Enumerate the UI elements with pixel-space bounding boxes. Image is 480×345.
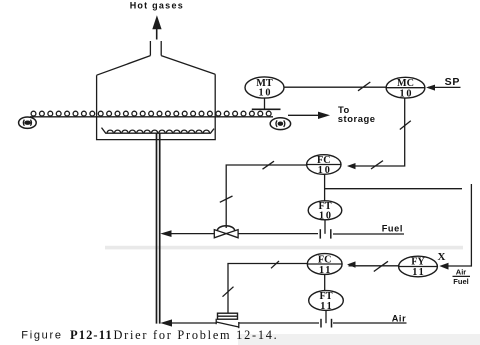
wire SP to MC-10 with arrowhead: [426, 85, 461, 91]
svg-text:Fuel: Fuel: [453, 277, 468, 286]
drier body: [97, 74, 216, 139]
signal slash on horizontal segment: [263, 161, 275, 169]
svg-text:11: 11: [319, 265, 332, 276]
signal slash: [374, 261, 388, 271]
to storage arrow: [288, 112, 330, 119]
svg-text:FC: FC: [318, 254, 332, 265]
wire MT-10 to MC-10: [284, 86, 386, 88]
svg-text:11: 11: [412, 267, 425, 278]
conveyor chain circles: [31, 111, 271, 116]
moisture transmitter MT-10: [245, 77, 284, 109]
signal slash on vertical segment: [400, 121, 411, 130]
fuel line: [163, 233, 404, 235]
svg-text:P12-11: P12-11: [70, 328, 113, 342]
faint scan smudge bottom right: [238, 334, 480, 345]
flow controller FC-11: [307, 254, 342, 276]
ratio relay FY-11: [399, 256, 438, 278]
air arrow into burner pipe: [160, 319, 172, 326]
fuel arrow into burner pipe: [160, 230, 171, 237]
wire FC-11 to FT-11: [324, 274, 326, 290]
drier roof: [97, 56, 216, 76]
left pulley: [19, 117, 37, 128]
svg-text:Hot gases: Hot gases: [130, 1, 184, 11]
wire FC-11 to damper: [223, 261, 308, 313]
wire FC-10 to FT-10: [324, 174, 326, 201]
svg-text:SP: SP: [445, 76, 461, 88]
right pulley: [270, 118, 290, 130]
orifice flow element FT-10: [320, 220, 331, 239]
burner pipe: [157, 133, 160, 323]
faint scan smudge band: [105, 246, 463, 250]
conveyor belt line: [30, 116, 273, 118]
moisture controller MC-10: [386, 77, 425, 99]
svg-text:Drier for Problem 12-14.: Drier for Problem 12-14.: [114, 328, 279, 342]
svg-text:Air: Air: [392, 314, 407, 324]
arrowhead into FY-11: [439, 263, 448, 270]
signal slash on vertical segment: [220, 196, 233, 202]
drier chimney: [150, 41, 161, 56]
svg-text:10: 10: [400, 88, 414, 99]
svg-text:MC: MC: [397, 78, 414, 89]
wire FT-10 branch to FY-11: [325, 184, 472, 266]
svg-text:Figure: Figure: [21, 330, 62, 342]
svg-text:Fuel: Fuel: [382, 224, 403, 234]
svg-text:FY: FY: [411, 257, 425, 268]
wire MC-10 to FC-10: [347, 98, 411, 169]
svg-text:10: 10: [259, 88, 273, 99]
flow transmitter FT-10: [308, 201, 342, 222]
svg-text:Air: Air: [456, 268, 467, 277]
svg-text:11: 11: [320, 301, 333, 312]
air damper actuator: [218, 313, 238, 319]
product tray with scallops: [102, 128, 215, 134]
flow controller FC-10: [307, 155, 341, 176]
wire FC-10 to control valve: [220, 161, 307, 222]
air line: [163, 322, 407, 324]
label Air/Fuel ratio: [453, 268, 471, 286]
signal slash on vertical segment: [223, 287, 234, 297]
control valve on fuel line: [214, 223, 238, 238]
flow transmitter FT-11: [309, 291, 344, 312]
svg-text:X: X: [438, 251, 446, 263]
air damper blade: [216, 319, 239, 329]
svg-text:storage: storage: [338, 113, 376, 124]
svg-text:10: 10: [319, 210, 333, 221]
wire FY-11 to FC-11: [347, 261, 399, 271]
caption Figure P12-11 Drier for Problem 12-14.: [21, 328, 278, 342]
signal slash on horizontal segment: [271, 261, 279, 268]
orifice flow element FT-11: [321, 310, 332, 327]
exhaust arrow: [152, 15, 161, 39]
signal slash on MT-MC wire: [358, 82, 370, 91]
signal slash on horizontal segment: [371, 161, 383, 169]
label To storage: [338, 104, 376, 124]
